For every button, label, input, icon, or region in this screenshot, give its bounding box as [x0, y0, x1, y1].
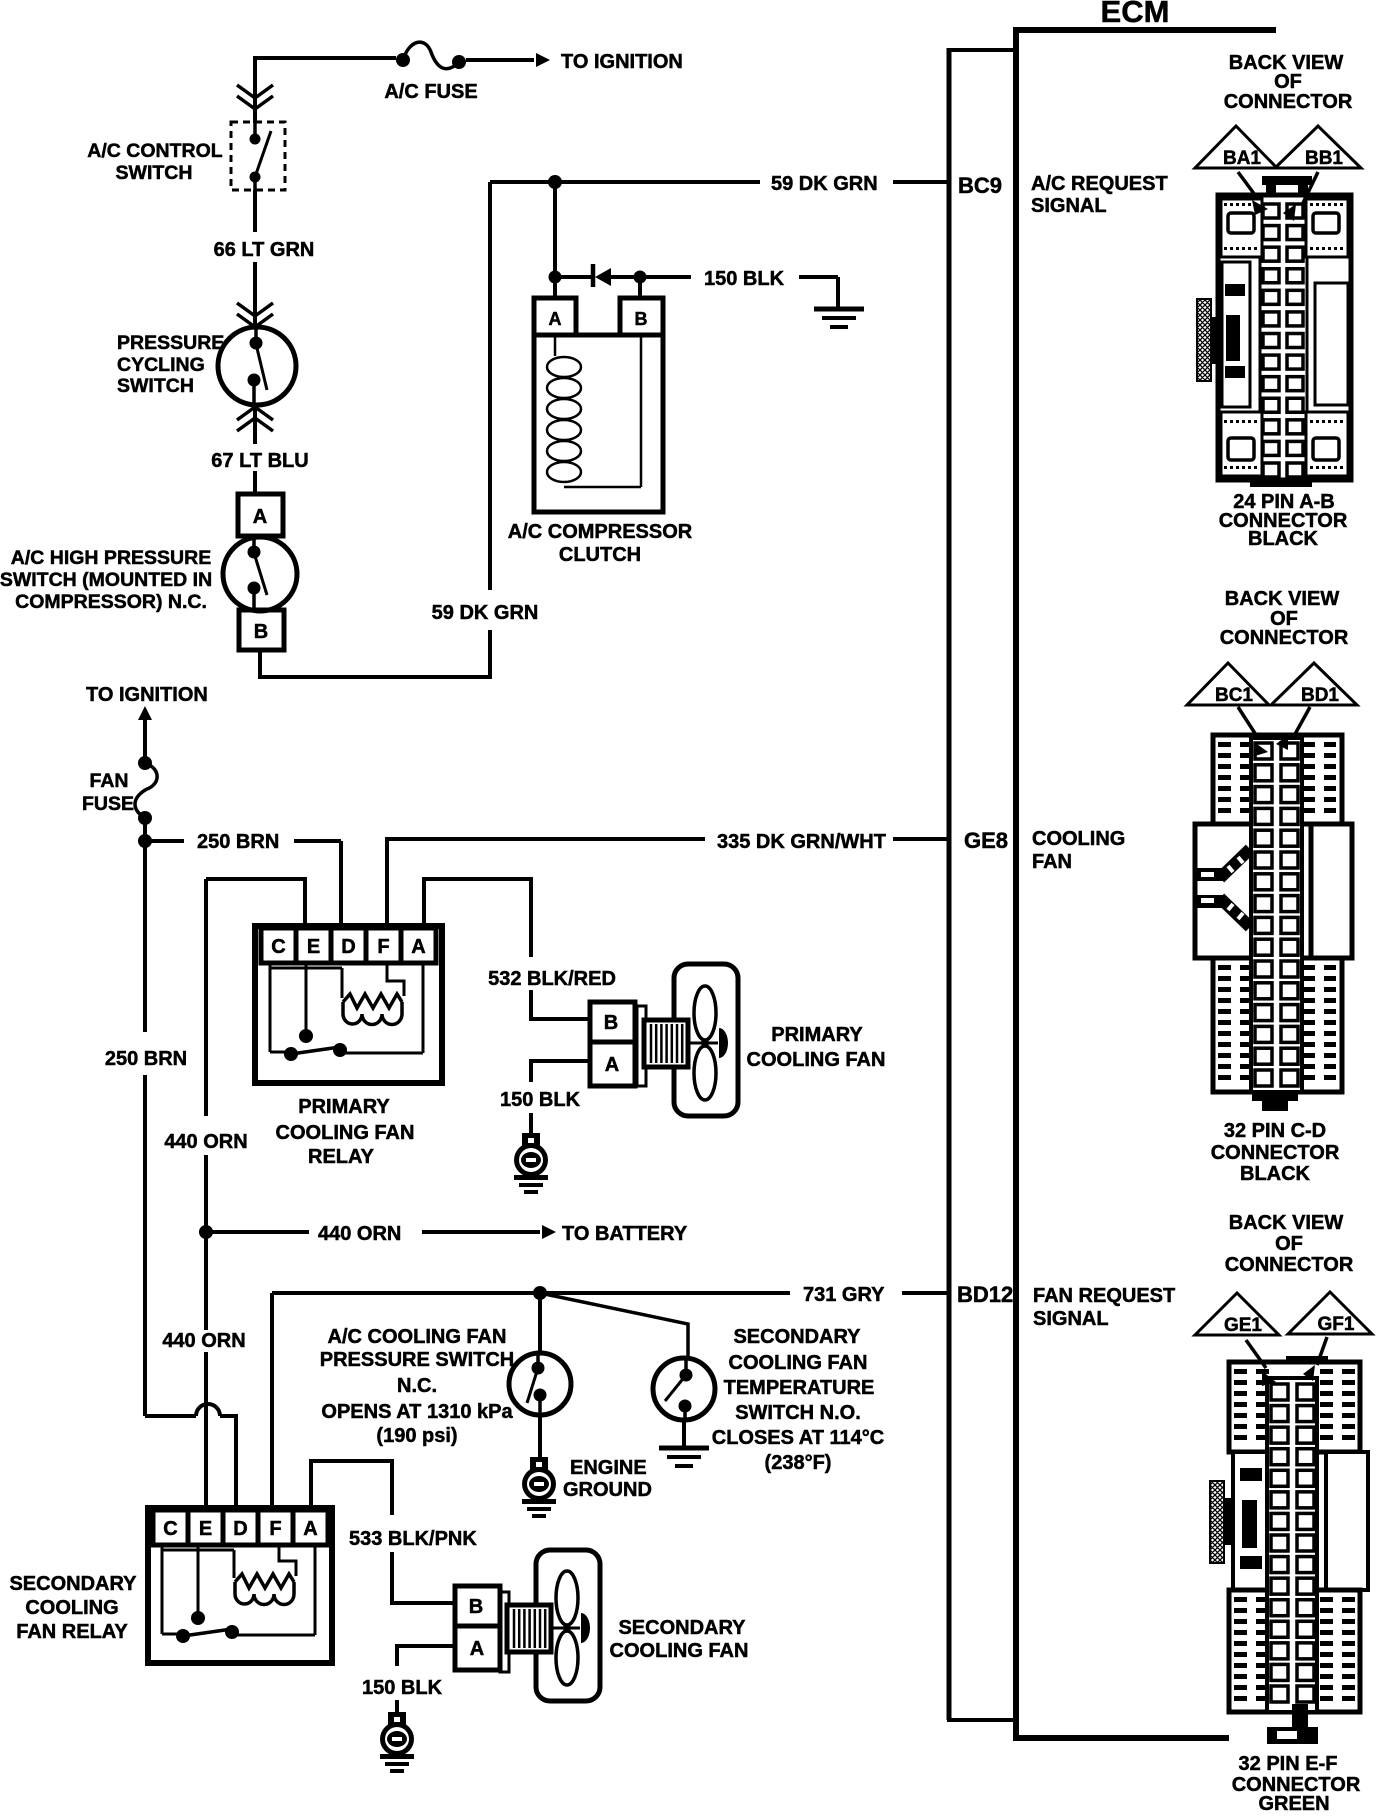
- svg-text:BC1: BC1: [1215, 685, 1253, 706]
- junction at diode right / clutch B: [634, 271, 647, 284]
- svg-text:FAN: FAN: [1032, 851, 1072, 873]
- svg-text:67 LT BLU: 67 LT BLU: [211, 450, 308, 472]
- svg-text:C: C: [163, 1518, 177, 1540]
- wire A/C fuse to ignition with arrow: [466, 58, 534, 62]
- svg-text:BD1: BD1: [1301, 685, 1339, 706]
- chevrons below pressure cycling switch: [237, 407, 273, 420]
- svg-text:32 PIN E-F: 32 PIN E-F: [1239, 1753, 1338, 1775]
- ground bolt (secondary fan 150 BLK): [388, 1712, 406, 1725]
- 32-pin E-F middle right box: [1326, 1452, 1368, 1590]
- wire clutch feed down from junction: [553, 182, 557, 298]
- wire pressure switch to engine ground: [538, 1415, 542, 1457]
- svg-text:A/C HIGH PRESSURE: A/C HIGH PRESSURE: [11, 547, 211, 569]
- svg-text:FAN: FAN: [90, 770, 129, 792]
- svg-text:COOLING: COOLING: [25, 1597, 118, 1619]
- ground (temperature switch): [659, 1446, 709, 1451]
- 32-pin E-F middle left box: [1233, 1452, 1273, 1590]
- svg-text:CLUTCH: CLUTCH: [559, 544, 641, 566]
- svg-text:COOLING FAN: COOLING FAN: [610, 1640, 749, 1662]
- svg-text:BA1: BA1: [1223, 148, 1261, 169]
- svg-text:CONNECTOR: CONNECTOR: [1220, 627, 1349, 649]
- svg-text:RELAY: RELAY: [308, 1146, 375, 1168]
- svg-text:A/C CONTROL: A/C CONTROL: [87, 140, 222, 162]
- 32-pin C-D middle right box: [1311, 824, 1352, 958]
- 24-pin left hatch tab: [1197, 299, 1211, 381]
- svg-text:SWITCH N.O.: SWITCH N.O.: [735, 1402, 861, 1424]
- wire 150 BLK primary fan ground: [531, 1061, 588, 1082]
- svg-text:FUSE: FUSE: [82, 793, 134, 815]
- svg-text:BACK VIEW: BACK VIEW: [1229, 1212, 1344, 1234]
- svg-text:SECONDARY: SECONDARY: [733, 1326, 861, 1348]
- wire 66 LT GRN A/C control switch to pressure cycling switch: [253, 190, 257, 232]
- arrow BA1 to connector: [1238, 172, 1258, 199]
- svg-text:SWITCH (MOUNTED IN: SWITCH (MOUNTED IN: [0, 569, 212, 591]
- svg-text:COMPRESSOR) N.C.: COMPRESSOR) N.C.: [15, 591, 207, 613]
- secondary fan blades: [556, 1571, 578, 1625]
- svg-text:OPENS AT 1310 kPa: OPENS AT 1310 kPa: [321, 1401, 513, 1423]
- 32-pin C-D central pin columns: [1251, 738, 1302, 1092]
- 32-pin E-F top section: [1229, 1362, 1360, 1452]
- svg-text:PRESSURE SWITCH: PRESSURE SWITCH: [320, 1349, 514, 1371]
- svg-text:ENGINE: ENGINE: [570, 1457, 647, 1479]
- svg-text:F: F: [377, 936, 389, 958]
- svg-text:BLACK: BLACK: [1240, 1163, 1311, 1185]
- svg-text:GREEN: GREEN: [1258, 1793, 1329, 1812]
- svg-text:BC9: BC9: [958, 173, 1002, 198]
- svg-text:B: B: [469, 1596, 483, 1618]
- svg-text:(190 psi): (190 psi): [376, 1425, 457, 1447]
- svg-text:SIGNAL: SIGNAL: [1033, 1308, 1109, 1330]
- ECM box outline: [1016, 30, 1276, 1738]
- svg-text:COOLING: COOLING: [1032, 828, 1125, 850]
- svg-text:GE1: GE1: [1224, 1315, 1262, 1336]
- svg-text:OF: OF: [1274, 71, 1302, 93]
- ECM rail bottom tick: [947, 1718, 1016, 1722]
- 32-pin C-D bottom section: [1213, 958, 1342, 1092]
- svg-text:FAN REQUEST: FAN REQUEST: [1033, 1285, 1175, 1307]
- secondary cooling fan relay K2: [148, 1508, 332, 1663]
- 24-pin central pin columns: [1259, 198, 1262, 478]
- svg-text:SWITCH: SWITCH: [116, 162, 193, 184]
- wire 440 ORN to battery: [206, 1230, 309, 1234]
- wire 250 BRN to primary relay pin D: [145, 839, 184, 843]
- A/C high pressure switch S3: [223, 537, 297, 611]
- wire 532 BLK/RED from relay pin A to fan B: [424, 879, 531, 957]
- svg-text:SECONDARY: SECONDARY: [9, 1573, 137, 1595]
- 24-pin corner block bottom-right: [1306, 412, 1348, 476]
- ECM rail top tick: [947, 48, 1016, 52]
- arrow GF1 to connector: [1317, 1337, 1327, 1365]
- wire 67 LT BLU: [253, 404, 257, 444]
- svg-text:PRIMARY: PRIMARY: [771, 1024, 863, 1046]
- svg-text:E: E: [199, 1518, 212, 1540]
- 24-pin corner block top-left: [1221, 199, 1262, 257]
- 24-pin connector top plug: [1262, 176, 1312, 185]
- svg-text:59 DK GRN: 59 DK GRN: [432, 602, 539, 624]
- svg-text:E: E: [307, 936, 320, 958]
- svg-text:COOLING FAN: COOLING FAN: [729, 1352, 868, 1374]
- svg-text:CONNECTOR: CONNECTOR: [1225, 1254, 1354, 1276]
- svg-text:C: C: [271, 936, 285, 958]
- svg-text:PRESSURE: PRESSURE: [117, 332, 224, 354]
- svg-text:GROUND: GROUND: [563, 1479, 652, 1501]
- svg-text:GE8: GE8: [964, 828, 1008, 853]
- callout triangle GE1: [1195, 1293, 1279, 1335]
- svg-text:533 BLK/PNK: 533 BLK/PNK: [349, 1528, 477, 1550]
- primary fan blades: [694, 986, 716, 1040]
- svg-text:BB1: BB1: [1305, 148, 1343, 169]
- svg-text:66 LT GRN: 66 LT GRN: [214, 239, 315, 261]
- arrow BD1 to connector: [1294, 707, 1310, 736]
- callout triangle BD1: [1271, 663, 1357, 705]
- 32-pin C-D middle left box: [1195, 824, 1252, 958]
- wire to ignition arrow up: [138, 706, 152, 720]
- 32-pin E-F top notch: [1286, 1356, 1328, 1365]
- secondary fan housing: [536, 1550, 600, 1701]
- 32-pin C-D bottom foot: [1252, 1092, 1298, 1101]
- svg-text:BD12: BD12: [957, 1282, 1013, 1307]
- 32-pin E-F bottom section: [1229, 1590, 1360, 1712]
- svg-text:250 BRN: 250 BRN: [197, 831, 279, 853]
- wire temperature switch to ground: [682, 1420, 686, 1446]
- wire 250 BRN to secondary relay pin D with hop: [145, 1414, 196, 1418]
- svg-text:TEMPERATURE: TEMPERATURE: [724, 1377, 875, 1399]
- wire clutch B terminal: [638, 277, 642, 298]
- svg-text:OF: OF: [1275, 1233, 1303, 1255]
- engine ground bolt: [530, 1457, 548, 1470]
- svg-text:CONNECTOR: CONNECTOR: [1211, 1142, 1340, 1164]
- wire 59 DK GRN horizontal to ECM BC9: [490, 180, 760, 184]
- pressure cycling switch S2: [218, 327, 296, 405]
- svg-text:(238°F): (238°F): [765, 1452, 832, 1474]
- svg-text:D: D: [233, 1518, 247, 1540]
- arrow GE1 to connector: [1246, 1340, 1266, 1368]
- primary relay internals: [269, 965, 272, 1052]
- svg-text:335 DK GRN/WHT: 335 DK GRN/WHT: [717, 831, 886, 853]
- svg-text:532 BLK/RED: 532 BLK/RED: [488, 968, 616, 990]
- 32-pin E-F bottom foot: [1292, 1704, 1308, 1728]
- terminal B of high pressure switch: [239, 610, 284, 650]
- wire to A/C cooling fan pressure switch: [538, 1293, 542, 1353]
- arrow BC1 to connector: [1238, 707, 1258, 738]
- primary relay pin boxes C E D F A: [261, 928, 296, 963]
- primary fan motor: [637, 1006, 646, 1086]
- svg-text:A: A: [549, 309, 562, 329]
- 24-pin corner block bottom-left: [1221, 412, 1262, 476]
- ground (clutch 150 BLK): [814, 307, 864, 312]
- svg-text:CYCLING: CYCLING: [117, 354, 205, 376]
- svg-text:59 DK GRN: 59 DK GRN: [771, 173, 878, 195]
- 32-pin C-D top section: [1213, 735, 1342, 824]
- wire 250 BRN left branch down: [143, 841, 147, 1032]
- secondary relay pin boxes C E D F A: [153, 1510, 188, 1545]
- svg-text:150 BLK: 150 BLK: [500, 1089, 581, 1111]
- svg-text:FAN RELAY: FAN RELAY: [16, 1621, 128, 1643]
- wire fuse to 250 BRN junction: [143, 818, 147, 841]
- svg-text:150 BLK: 150 BLK: [362, 1677, 443, 1699]
- svg-text:TO BATTERY: TO BATTERY: [562, 1223, 688, 1245]
- svg-text:731 GRY: 731 GRY: [803, 1284, 885, 1306]
- svg-text:SECONDARY: SECONDARY: [618, 1617, 746, 1639]
- wire 533 BLK/PNK relay pin A to secondary fan B: [311, 1461, 392, 1515]
- svg-text:CONNECTOR: CONNECTOR: [1224, 91, 1353, 113]
- svg-text:BACK VIEW: BACK VIEW: [1225, 588, 1340, 610]
- svg-text:A: A: [411, 936, 425, 958]
- primary fan housing: [674, 964, 738, 1116]
- svg-text:D: D: [341, 936, 355, 958]
- callout triangle GF1: [1288, 1292, 1372, 1334]
- junction 440 ORN battery feed: [199, 1225, 213, 1239]
- svg-text:BLACK: BLACK: [1248, 528, 1319, 550]
- arrow BB1 to connector: [1302, 172, 1318, 205]
- A/C control switch S1: [231, 122, 285, 190]
- svg-text:SWITCH: SWITCH: [117, 375, 194, 397]
- diode CR1 (arrow pointing left): [555, 275, 592, 279]
- svg-text:150 BLK: 150 BLK: [704, 268, 785, 290]
- svg-text:COOLING FAN: COOLING FAN: [747, 1049, 886, 1071]
- svg-text:A/C COMPRESSOR: A/C COMPRESSOR: [508, 521, 693, 543]
- svg-text:A/C COOLING FAN: A/C COOLING FAN: [328, 1326, 507, 1348]
- svg-text:440 ORN: 440 ORN: [318, 1223, 401, 1245]
- junction 731 GRY: [533, 1286, 547, 1300]
- wire 440 ORN down to secondary relay pin E: [204, 1232, 208, 1330]
- svg-text:ECM: ECM: [1101, 0, 1170, 29]
- svg-text:PRIMARY: PRIMARY: [298, 1096, 390, 1118]
- primary fan connector B/A: [590, 1002, 635, 1042]
- callout triangle BC1: [1187, 663, 1269, 705]
- primary cooling fan relay K1: [255, 926, 442, 1083]
- svg-text:F: F: [269, 1518, 281, 1540]
- svg-text:A: A: [470, 1638, 484, 1660]
- connector chevrons below fuse wire: [237, 85, 273, 98]
- wire to secondary temperature switch (slant): [540, 1293, 688, 1358]
- svg-text:A: A: [605, 1054, 619, 1076]
- svg-text:B: B: [635, 309, 648, 329]
- svg-text:A: A: [253, 506, 267, 528]
- 24-pin corner block top-right: [1306, 199, 1348, 257]
- svg-text:COOLING FAN: COOLING FAN: [276, 1122, 415, 1144]
- wire to relay pin E and 440 ORN branch: [206, 879, 305, 926]
- svg-text:440 ORN: 440 ORN: [164, 1131, 247, 1153]
- svg-text:440 ORN: 440 ORN: [162, 1330, 245, 1352]
- secondary fan connector B/A: [455, 1586, 500, 1626]
- svg-text:B: B: [604, 1012, 618, 1034]
- wire 731 GRY from ECM BD12: [902, 1291, 947, 1295]
- svg-text:TO IGNITION: TO IGNITION: [86, 684, 208, 706]
- A/C compressor clutch body: [534, 335, 663, 512]
- clutch coil: [554, 335, 557, 356]
- 24-pin left panel details: [1222, 262, 1250, 407]
- secondary cooling fan temperature switch S5: [653, 1358, 715, 1420]
- svg-text:SIGNAL: SIGNAL: [1031, 195, 1107, 217]
- 24-pin right panel: [1315, 283, 1348, 405]
- svg-text:B: B: [254, 621, 268, 643]
- svg-text:A/C FUSE: A/C FUSE: [384, 81, 477, 103]
- svg-text:250 BRN: 250 BRN: [105, 1048, 187, 1070]
- 32-pin C-D Y-fork graphic: [1197, 868, 1223, 881]
- secondary fan motor: [500, 1592, 509, 1672]
- wire 150 BLK secondary fan ground: [397, 1646, 453, 1666]
- fan fuse: [135, 763, 157, 818]
- junction 59 DK GRN / compressor clutch: [548, 175, 562, 189]
- 24-pin A-B connector body: [1218, 195, 1351, 480]
- svg-text:32 PIN C-D: 32 PIN C-D: [1224, 1120, 1326, 1142]
- 32-pin E-F left hatch tab: [1210, 1481, 1224, 1563]
- terminal A of high pressure switch: [238, 494, 283, 536]
- A/C cooling fan pressure switch S4: [509, 1353, 571, 1415]
- secondary relay internals: [161, 1547, 164, 1634]
- junction at diode left: [549, 271, 562, 284]
- svg-text:TO IGNITION: TO IGNITION: [561, 51, 683, 73]
- A/C fuse: [403, 42, 459, 69]
- 24-pin bottom foot: [1250, 478, 1312, 487]
- chevrons into pressure cycling switch: [237, 303, 273, 316]
- wire 335 DK GRN/WHT from relay pin F to ECM GE8: [387, 839, 705, 926]
- svg-text:N.C.: N.C.: [397, 1375, 437, 1397]
- callout triangle BB1: [1275, 126, 1361, 168]
- wire ignition feed to A/C fuse: [255, 58, 396, 123]
- svg-text:GF1: GF1: [1318, 1314, 1355, 1335]
- A/C compressor clutch terminal A box: [534, 298, 576, 335]
- junction 250 BRN: [138, 834, 152, 848]
- svg-text:A: A: [303, 1518, 317, 1540]
- ground bolt (primary fan 150 BLK): [522, 1133, 540, 1146]
- wire 59 DK GRN from switch B up the right side: [260, 630, 490, 677]
- 32-pin E-F central pin columns: [1267, 1378, 1317, 1712]
- callout triangle BA1: [1195, 126, 1277, 168]
- ECM connector rail line: [947, 48, 952, 1720]
- svg-text:CLOSES AT 114°C: CLOSES AT 114°C: [712, 1427, 885, 1449]
- svg-text:A/C REQUEST: A/C REQUEST: [1031, 173, 1168, 195]
- A/C compressor clutch terminal B box: [620, 298, 663, 335]
- wire 150 BLK from diode to ground: [640, 275, 691, 279]
